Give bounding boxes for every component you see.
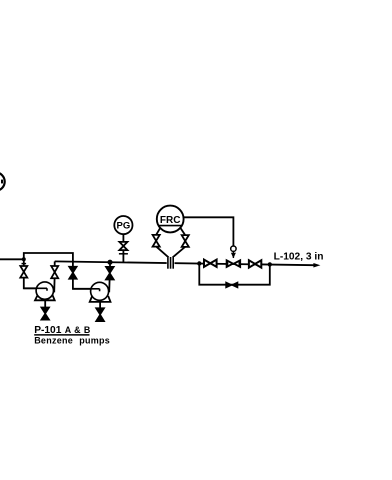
svg-text:L-102, 3 in: L-102, 3 in (274, 251, 324, 262)
svg-text:PG: PG (117, 221, 131, 232)
svg-text:A & B: A & B (65, 325, 91, 335)
svg-text:FRC: FRC (160, 215, 181, 226)
svg-text:Benzene pumps: Benzene pumps (34, 335, 110, 345)
